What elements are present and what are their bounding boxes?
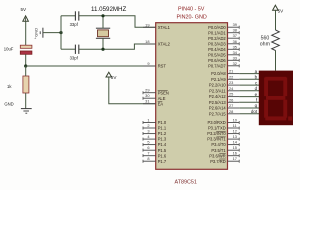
svg-text:P1.3: P1.3 xyxy=(158,137,167,142)
svg-text:GND: GND xyxy=(4,101,13,106)
wire P2.0 to display segment a xyxy=(239,69,259,74)
pin P0.5/AD5 (34) xyxy=(208,50,239,58)
node crystal bottom xyxy=(101,48,104,51)
power 5V (display) xyxy=(273,5,285,13)
svg-text:P3.2/INT0: P3.2/INT0 xyxy=(207,131,226,136)
wire C2 to XTAL2 pin xyxy=(79,44,156,49)
pin P3.6/WR (16) xyxy=(209,151,239,159)
svg-text:10uF: 10uF xyxy=(4,47,14,52)
pin P2.6/A14 (27) xyxy=(209,103,239,111)
svg-text:31: 31 xyxy=(145,99,149,104)
pin PSEN (29) xyxy=(143,88,169,96)
svg-text:P0.4/AD4: P0.4/AD4 xyxy=(208,47,226,52)
svg-text:PIN40 - 5V: PIN40 - 5V xyxy=(178,7,205,13)
svg-text:GND: GND xyxy=(34,28,39,37)
svg-text:3: 3 xyxy=(147,129,149,134)
svg-text:P1.1: P1.1 xyxy=(158,126,167,131)
svg-text:P0.7/AD7: P0.7/AD7 xyxy=(208,63,226,68)
ground GND (crystal rail) xyxy=(34,28,43,38)
svg-text:P2.6/A14: P2.6/A14 xyxy=(209,106,227,111)
svg-text:ALE: ALE xyxy=(158,96,166,101)
pin P0.4/AD4 (35) xyxy=(208,44,239,52)
svg-text:P2.4/A12: P2.4/A12 xyxy=(209,94,227,99)
svg-text:9: 9 xyxy=(147,61,149,66)
svg-text:1: 1 xyxy=(147,118,149,123)
svg-text:7: 7 xyxy=(147,151,149,156)
wire P2.3 to display segment d xyxy=(239,86,259,91)
wire GND to crystal rail xyxy=(43,32,61,34)
svg-text:AT89C51: AT89C51 xyxy=(175,180,197,186)
wire P2.5 to display segment f xyxy=(239,98,259,103)
crystal X1 11.0592MHZ xyxy=(91,6,127,38)
svg-text:26: 26 xyxy=(229,97,233,102)
svg-text:11: 11 xyxy=(233,123,237,128)
pin P1.7 (8) xyxy=(143,156,167,164)
svg-text:37: 37 xyxy=(233,33,237,38)
svg-text:P0.1/AD1: P0.1/AD1 xyxy=(208,30,226,35)
svg-text:P3.5/T1: P3.5/T1 xyxy=(211,148,226,153)
ground (reset circuit) xyxy=(4,101,31,113)
svg-text:39: 39 xyxy=(233,22,237,27)
svg-text:P3.4/T0: P3.4/T0 xyxy=(211,142,226,147)
svg-text:5: 5 xyxy=(147,140,149,145)
svg-text:33pf: 33pf xyxy=(70,55,79,60)
node RST junction xyxy=(24,64,27,67)
wire crystal bottom lead xyxy=(102,38,104,49)
capacitor C1 33pf xyxy=(70,11,79,27)
resistor R2 560 ohm xyxy=(260,30,280,51)
svg-text:EA: EA xyxy=(158,101,164,106)
svg-text:13: 13 xyxy=(233,134,237,139)
pin P2.0/A8 (21) xyxy=(211,69,239,77)
svg-text:36: 36 xyxy=(233,39,237,44)
power 5V (reset circuit) xyxy=(21,7,29,21)
pin P2.5/A13 (26) xyxy=(209,97,239,105)
svg-text:P0.3/AD3: P0.3/AD3 xyxy=(208,41,226,46)
svg-text:XTAL1: XTAL1 xyxy=(158,25,171,30)
wire crystal top lead xyxy=(102,16,104,28)
svg-text:RST: RST xyxy=(158,64,167,69)
svg-text:33: 33 xyxy=(233,55,237,60)
svg-text:P3.0/RXD: P3.0/RXD xyxy=(207,120,225,125)
svg-text:33pf: 33pf xyxy=(70,22,79,27)
pin P0.7/AD7 (32) xyxy=(208,61,239,69)
svg-text:dot: dot xyxy=(251,109,258,114)
svg-text:P1.7: P1.7 xyxy=(158,159,167,164)
svg-text:P1.2: P1.2 xyxy=(158,131,167,136)
pin P1.4 (5) xyxy=(143,140,167,148)
pin P0.0/AD0 (39) xyxy=(208,22,239,30)
svg-text:19: 19 xyxy=(145,22,149,27)
wire 5V to EA xyxy=(109,77,156,104)
wire 5V to C10uF xyxy=(25,21,27,45)
svg-text:PSEN: PSEN xyxy=(158,90,169,95)
svg-text:35: 35 xyxy=(233,44,237,49)
pin P2.4/A12 (25) xyxy=(209,92,239,100)
svg-text:P1.6: P1.6 xyxy=(158,153,167,158)
pin P1.5 (6) xyxy=(143,145,167,153)
resistor R 1k xyxy=(7,76,29,93)
pin P3.0/RXD (10) xyxy=(207,118,239,126)
svg-text:11.0592MHZ: 11.0592MHZ xyxy=(91,6,127,13)
node crystal rail junction xyxy=(59,31,62,34)
pin P0.3/AD3 (36) xyxy=(208,39,239,47)
svg-text:2: 2 xyxy=(147,123,149,128)
svg-text:15: 15 xyxy=(233,145,237,150)
svg-text:32: 32 xyxy=(233,61,237,66)
wire C to node RST xyxy=(25,54,27,66)
pin XTAL1 (19) xyxy=(143,22,171,30)
svg-text:6: 6 xyxy=(147,145,149,150)
pin P0.1/AD1 (38) xyxy=(208,28,239,36)
svg-text:29: 29 xyxy=(145,88,149,93)
node crystal top xyxy=(101,14,104,17)
wire P2.6 to display segment g xyxy=(239,103,259,108)
wire resistor to ground xyxy=(25,93,27,109)
svg-text:8: 8 xyxy=(147,156,149,161)
svg-text:38: 38 xyxy=(233,28,237,33)
svg-text:25: 25 xyxy=(229,92,233,97)
svg-text:P2.7/A15: P2.7/A15 xyxy=(209,111,227,116)
svg-text:P2.1/A9: P2.1/A9 xyxy=(211,77,226,82)
svg-text:28: 28 xyxy=(229,109,233,114)
pin XTAL2 (18) xyxy=(143,39,171,47)
pin P3.5/T1 (15) xyxy=(211,145,239,153)
svg-text:PIN20- GND: PIN20- GND xyxy=(177,14,207,20)
pin P2.3/A11 (24) xyxy=(209,86,239,94)
wire node to resistor xyxy=(25,66,27,76)
capacitor C2 33pf xyxy=(70,45,79,61)
capacitor C 10uF xyxy=(4,36,37,55)
wire 5V to resistor xyxy=(275,10,277,30)
wire C1 to XTAL1 pin xyxy=(79,16,156,27)
svg-text:P3.7/RD: P3.7/RD xyxy=(210,159,226,164)
wire P2.4 to display segment e xyxy=(239,92,259,97)
pin P3.2/INT0 (12) xyxy=(207,129,239,137)
svg-text:P3.3/INT1: P3.3/INT1 xyxy=(207,137,226,142)
wire P2.2 to display segment c xyxy=(239,80,259,85)
svg-text:27: 27 xyxy=(229,103,233,108)
wire resistor to display xyxy=(275,50,277,70)
wire P2.7 to display segment dot xyxy=(239,109,259,114)
pin P3.4/T0 (14) xyxy=(211,140,239,148)
svg-text:P0.0/AD0: P0.0/AD0 xyxy=(208,25,226,30)
svg-text:P3.1/TXD: P3.1/TXD xyxy=(208,126,226,131)
wire node to RST pin xyxy=(26,65,156,67)
svg-text:P1.5: P1.5 xyxy=(158,148,167,153)
pin P1.3 (4) xyxy=(143,134,167,142)
pin P0.2/AD2 (37) xyxy=(208,33,239,41)
svg-text:P0.6/AD6: P0.6/AD6 xyxy=(208,58,226,63)
svg-text:16: 16 xyxy=(233,151,237,156)
svg-text:P1.4: P1.4 xyxy=(158,142,167,147)
7-segment display xyxy=(259,71,293,126)
pin P0.6/AD6 (33) xyxy=(208,55,239,63)
svg-text:P3.6/WR: P3.6/WR xyxy=(209,153,225,158)
svg-text:22: 22 xyxy=(229,74,233,79)
pin P2.7/A15 (28) xyxy=(209,109,239,117)
svg-text:P2.5/A13: P2.5/A13 xyxy=(209,100,227,105)
svg-text:P0.2/AD2: P0.2/AD2 xyxy=(208,36,226,41)
pin ALE (30) xyxy=(143,93,166,101)
op-amp U1 AT89C51 body xyxy=(156,23,228,186)
svg-text:23: 23 xyxy=(229,80,233,85)
pin P1.1 (2) xyxy=(143,123,167,131)
pin P1.6 (7) xyxy=(143,151,167,159)
svg-text:P2.3/A11: P2.3/A11 xyxy=(209,88,226,93)
svg-text:XTAL2: XTAL2 xyxy=(158,42,171,47)
pin P1.0 (1) xyxy=(143,118,167,126)
pin P3.1/TXD (11) xyxy=(208,123,239,131)
svg-text:5V: 5V xyxy=(111,75,118,80)
wire XTAL1 top xyxy=(61,15,75,17)
svg-text:P1.0: P1.0 xyxy=(158,120,167,125)
wire crystal left rail xyxy=(60,16,62,49)
pin P3.7/RD (17) xyxy=(210,156,239,164)
svg-text:12: 12 xyxy=(233,129,237,134)
svg-text:P2.0/A8: P2.0/A8 xyxy=(211,71,226,76)
svg-text:P2.2/A10: P2.2/A10 xyxy=(209,83,227,88)
pin P2.1/A9 (22) xyxy=(211,74,239,82)
svg-text:21: 21 xyxy=(229,69,233,74)
svg-text:17: 17 xyxy=(233,156,237,161)
pin P3.3/INT1 (13) xyxy=(207,134,239,142)
wire XTAL2 bottom xyxy=(61,48,75,50)
svg-text:5V: 5V xyxy=(278,8,285,13)
wire P2.1 to display segment b xyxy=(239,75,259,80)
power 5V (EA pin) xyxy=(106,72,117,80)
pin EA (31) xyxy=(143,99,163,107)
svg-text:5V: 5V xyxy=(21,7,28,12)
svg-text:ohm: ohm xyxy=(260,41,270,47)
pin P1.2 (3) xyxy=(143,129,167,137)
svg-text:P0.5/AD5: P0.5/AD5 xyxy=(208,52,226,57)
pin RST (9) xyxy=(143,61,166,69)
pin P2.2/A10 (23) xyxy=(209,80,239,88)
svg-text:18: 18 xyxy=(145,39,149,44)
